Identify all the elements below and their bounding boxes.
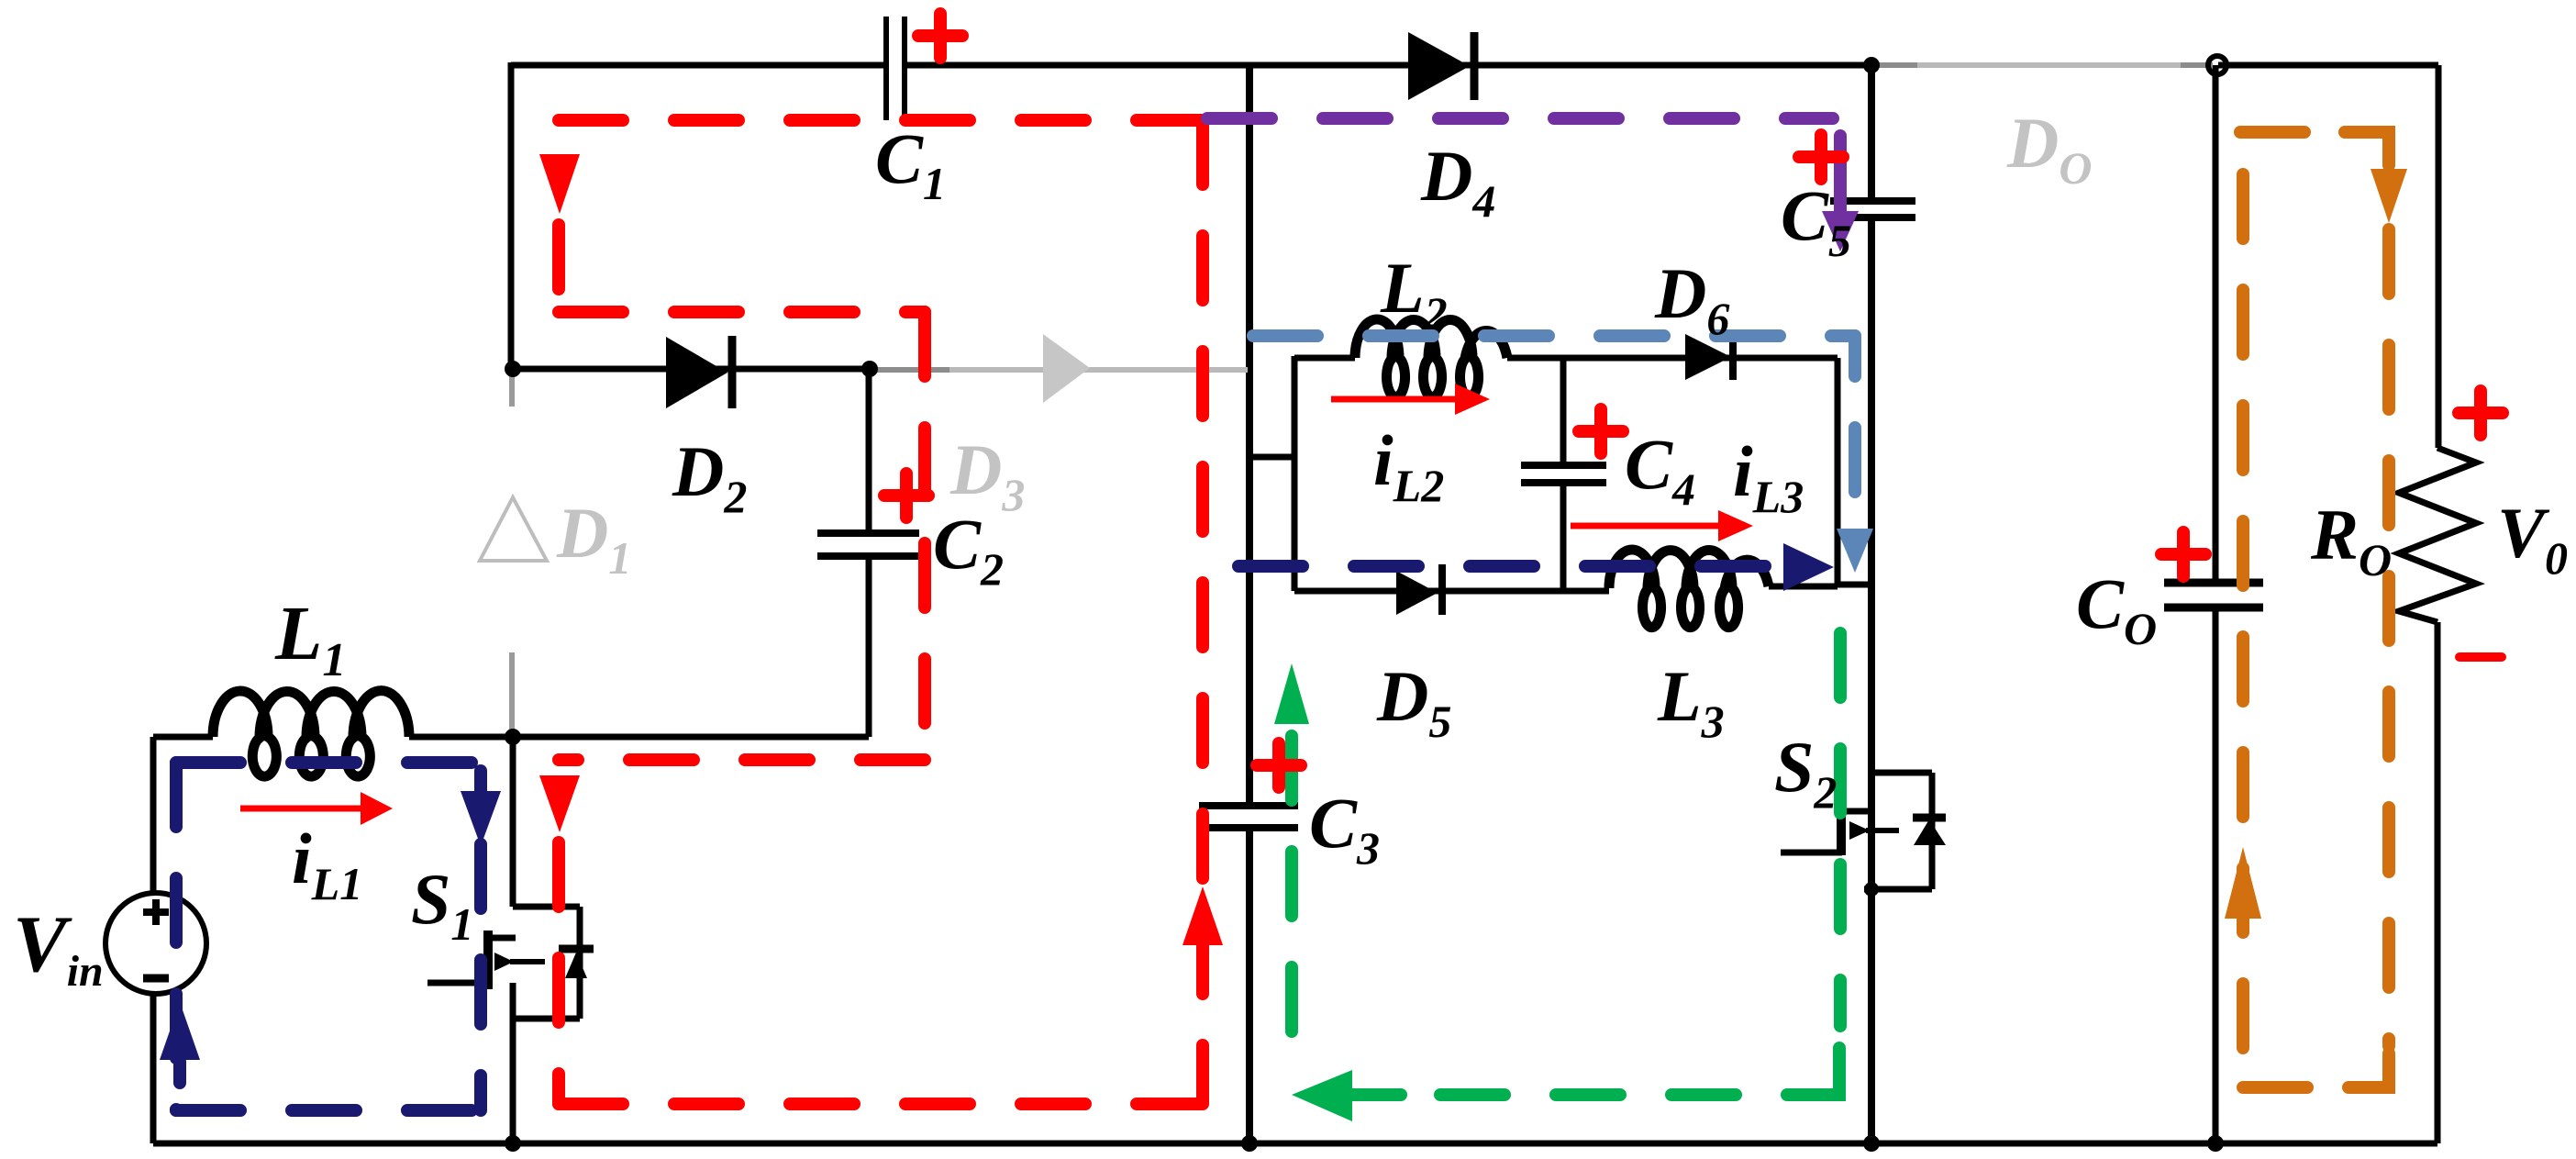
voltage source Vin — [105, 893, 206, 994]
wire bottom ground rail — [153, 1141, 2437, 1147]
svg-text:D1: D1 — [556, 493, 631, 584]
transistor S1 (MOSFET with body diode) — [427, 907, 594, 1019]
wire left vertical from top corner down to D2 anode — [508, 62, 515, 369]
current path steel blue right vertical with down arrow — [1837, 336, 1873, 573]
node S2 source junction — [1864, 882, 1879, 897]
wire output top from node to Ro corner — [2218, 65, 2438, 448]
inductor L3 — [1609, 550, 1769, 628]
label D1 (gray) — [556, 493, 631, 584]
current path output loop bottom (orange dashed) — [2243, 1053, 2389, 1087]
label D3 (gray) — [949, 429, 1025, 520]
current path green bottom with left arrow — [1292, 1048, 1839, 1121]
node S1 bottom junction — [505, 1135, 521, 1152]
diode D2 — [666, 336, 732, 408]
diode D3 (inactive, gray) wire — [872, 367, 1248, 373]
node L1 / S1 drain junction — [505, 729, 521, 745]
label S2 — [1774, 727, 1837, 818]
svg-text:D4: D4 — [1420, 136, 1495, 227]
node Co bottom junction — [2207, 1135, 2224, 1152]
current path purple down arrow into C5 — [1822, 136, 1859, 251]
capacitor CO — [2164, 583, 2263, 607]
node C3 bottom junction — [1241, 1135, 1258, 1152]
wire block top from L2 to right corner — [1507, 355, 1838, 362]
wire right rail from C5 down to bottom — [1868, 217, 1875, 1143]
diode D1 (inactive, gray) anode stub — [509, 371, 515, 407]
polarity plus of V0 — [2459, 391, 2503, 435]
node D2 cathode / C2 junction — [861, 361, 878, 377]
svg-text:L1: L1 — [274, 591, 346, 686]
svg-text:DO: DO — [2006, 103, 2092, 194]
diode D5 — [1396, 564, 1442, 615]
label D6 — [1654, 253, 1729, 344]
wire block top left segment — [1294, 355, 1355, 362]
polarity plus of C2 — [884, 474, 928, 518]
label iL1 — [292, 819, 362, 909]
current path L2/D6 (steel blue dashed) — [1253, 329, 1855, 342]
current path input loop left with up arrow (navy) — [160, 763, 200, 1110]
inductor L2 — [1355, 319, 1507, 397]
wire Vin bottom lead — [150, 992, 157, 1143]
label C3 — [1309, 783, 1380, 874]
wire stub block to right rail — [1838, 582, 1871, 588]
polarity plus of CO — [2161, 532, 2205, 576]
inductor L1 — [213, 691, 409, 776]
current path red loop top segment — [559, 114, 1203, 127]
current path D4 (purple dashed) — [1207, 112, 1833, 125]
wire S1 drain rail — [510, 737, 516, 907]
label D2 — [672, 431, 747, 522]
svg-text:RO: RO — [2310, 495, 2392, 585]
wire stub rail to L2 block — [1249, 454, 1294, 461]
node top right rail junction — [1863, 57, 1880, 73]
current path red loop bottom segment — [559, 1098, 1203, 1110]
label iL2 — [1373, 420, 1444, 511]
current path red loop right vertical with up arrow — [1183, 120, 1223, 1104]
svg-text:D2: D2 — [672, 431, 747, 522]
label S1 — [411, 859, 473, 950]
svg-text:S1: S1 — [411, 859, 473, 950]
wire C4 top lead — [1560, 358, 1567, 465]
current arrow iL3 — [1571, 510, 1753, 541]
polarity minus of V0 — [2459, 652, 2502, 662]
label C5 — [1781, 175, 1851, 266]
wire C4 bottom lead — [1560, 483, 1567, 591]
wire C2 top lead — [866, 369, 872, 533]
diode D6 — [1685, 334, 1733, 380]
current path input loop bottom (navy dashed) — [176, 1104, 481, 1117]
capacitor C3 — [1199, 806, 1298, 828]
current arrow iL2 — [1331, 384, 1490, 415]
polarity plus of C5 — [1799, 135, 1843, 179]
node right rail bottom junction — [1863, 1135, 1880, 1152]
label RO — [2310, 495, 2392, 585]
label V0 — [2497, 493, 2568, 584]
svg-text:S2: S2 — [1774, 727, 1837, 818]
svg-text:Vin: Vin — [13, 900, 104, 996]
wire from Vin plus to L1 — [153, 734, 213, 741]
current path red loop horizontal above D2 — [559, 306, 925, 318]
svg-text:C4: C4 — [1625, 424, 1695, 515]
svg-text:D6: D6 — [1654, 253, 1729, 344]
diode D4 — [1408, 32, 1474, 100]
current path orange down arrow at Ro top — [2371, 169, 2407, 223]
wire Vin top lead — [150, 737, 157, 895]
label D4 — [1420, 136, 1495, 227]
svg-text:C1: C1 — [875, 118, 946, 209]
label CO — [2076, 563, 2157, 654]
label L3 — [1657, 656, 1725, 747]
svg-text:L2: L2 — [1380, 248, 1448, 339]
wire top rail from C1 to top-right node — [905, 62, 1871, 69]
current path output loop top (orange dashed) — [2240, 132, 2389, 165]
current path output loop left vertical with up arrow — [2225, 174, 2261, 1072]
capacitor C4 — [1521, 465, 1606, 483]
current path input loop top (navy dashed) — [176, 756, 481, 769]
svg-text:C3: C3 — [1309, 783, 1380, 874]
diode D3 (inactive, gray) triangle — [1043, 334, 1090, 403]
svg-text:C2: C2 — [933, 504, 1004, 595]
resistor RO zigzag — [2399, 448, 2476, 622]
current path red loop horizontal to S1 — [559, 753, 925, 766]
svg-text:L3: L3 — [1657, 656, 1725, 747]
label Vin — [13, 900, 104, 996]
label C2 — [933, 504, 1004, 595]
transistor S2 (MOSFET with body diode) — [1781, 773, 1946, 889]
svg-text:V0: V0 — [2497, 493, 2568, 584]
wire center rail below C3 — [1246, 828, 1253, 1143]
wire C2 bottom lead and corner to S1 drain node — [513, 556, 869, 737]
diode D1 (inactive, gray) cathode lead — [509, 652, 515, 734]
wire S1 source rail — [510, 983, 516, 1143]
wire block right side — [1835, 358, 1841, 585]
wire block bottom left with D5 — [1294, 588, 1609, 595]
current path green right vertical through S2 — [1834, 633, 1847, 1026]
current path input loop right with down arrow (navy) — [461, 771, 501, 1110]
svg-text:CO: CO — [2076, 563, 2157, 654]
label C1 — [875, 118, 946, 209]
polarity plus of C3 — [1257, 743, 1301, 787]
svg-text:iL3: iL3 — [1733, 431, 1804, 522]
label L1 — [274, 591, 346, 686]
current path green left vertical with up arrow at C3 — [1274, 663, 1309, 1042]
wire center rail above C3 — [1246, 65, 1253, 806]
label DO (gray) — [2006, 103, 2092, 194]
current path D5/L3 (navy dashed) with right arrow — [1238, 543, 1834, 591]
wire right rail from top node to C5 — [1868, 65, 1875, 201]
current path output loop right vertical (orange dashed) — [2382, 229, 2395, 1046]
current path red loop upper-left vertical with down arrow — [539, 154, 580, 313]
node Do cathode ring junction — [2208, 56, 2226, 74]
label D5 — [1376, 656, 1451, 747]
wire from L3 to block right corner — [1769, 584, 1838, 590]
wire Co bottom lead — [2213, 607, 2219, 1143]
label L2 — [1380, 248, 1448, 339]
polarity plus of C1 — [918, 14, 962, 58]
diode D1 (inactive, gray) triangle — [480, 497, 547, 561]
svg-text:D5: D5 — [1376, 656, 1451, 747]
capacitor C5 — [1830, 201, 1915, 217]
label C4 — [1625, 424, 1695, 515]
wire top rail from left corner to C1 — [511, 62, 883, 69]
current path red loop vertical through C2 — [918, 312, 931, 760]
wire Co top lead — [2213, 65, 2219, 583]
wire block left side — [1292, 356, 1298, 591]
polarity plus of C4 — [1579, 409, 1623, 453]
capacitor C2 — [817, 533, 919, 556]
current arrow iL1 — [240, 792, 393, 825]
label iL3 — [1733, 431, 1804, 522]
wire D2 branch horizontal — [511, 366, 870, 373]
wire Ro bottom lead — [2435, 622, 2441, 1143]
wire from L1 to S1 drain node — [409, 734, 514, 741]
svg-text:iL1: iL1 — [292, 819, 362, 909]
diode DO (inactive, gray) wire — [1873, 62, 2213, 68]
svg-text:iL2: iL2 — [1373, 420, 1444, 511]
node D2 anode junction — [505, 361, 521, 377]
capacitor C1 — [886, 17, 905, 120]
current path red loop S1 vertical with down arrow — [539, 775, 580, 1104]
